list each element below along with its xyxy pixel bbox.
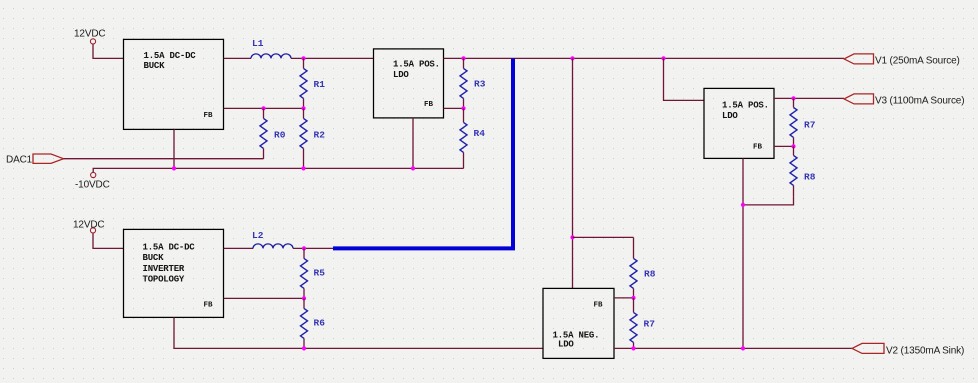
node U1 bottom on rail	[172, 166, 176, 170]
svg-text:LDO: LDO	[722, 111, 738, 121]
port DAC1	[33, 154, 64, 163]
op-amp U5 1.5A DC-DC BUCK INVERTER TOPOLOGY	[124, 229, 224, 317]
wire to R8 mid	[573, 236, 634, 238]
wire L1 to U2	[291, 57, 374, 59]
terminal 12VDC (bottom)	[90, 228, 95, 233]
node R8 return junction	[741, 203, 745, 207]
node R5/R6 junction	[302, 296, 306, 300]
node L2 output junction	[302, 246, 306, 250]
resistor R6	[301, 298, 326, 348]
node R7 bottom on rail	[631, 346, 635, 350]
terminal -10VDC	[91, 172, 96, 177]
svg-text:L2: L2	[252, 230, 264, 241]
wire 12VDC to U1	[93, 44, 124, 58]
svg-text:R2: R2	[314, 129, 326, 140]
wire to U3 input	[664, 58, 705, 100]
svg-text:LDO: LDO	[558, 339, 574, 349]
node R7 top junction	[791, 96, 795, 100]
svg-text:1.5A POS.: 1.5A POS.	[393, 59, 440, 69]
svg-text:L1: L1	[252, 38, 264, 49]
wire U2 FB	[444, 107, 464, 109]
svg-text:LDO: LDO	[393, 70, 409, 80]
wire U4 FB	[614, 297, 634, 299]
resistor R7 (right)	[790, 98, 816, 146]
node U2 bottom on rail	[411, 166, 415, 170]
node L1 output junction	[301, 56, 305, 60]
svg-text:1.5A POS.: 1.5A POS.	[722, 100, 769, 110]
op-amp U2 1.5A POS. LDO	[374, 49, 444, 118]
svg-text:FB: FB	[424, 101, 434, 109]
svg-text:R7: R7	[804, 119, 816, 130]
wire U3 out to V3	[774, 97, 844, 99]
svg-text:FB: FB	[204, 112, 214, 120]
resistor R8 (right)	[790, 146, 816, 196]
svg-text:R0: R0	[274, 129, 286, 140]
terminal 12VDC (top)	[90, 39, 95, 44]
wire U2 bottom pin	[412, 118, 414, 168]
resistor R3	[460, 58, 486, 108]
node R8/R7 junction (mid)	[631, 296, 635, 300]
svg-text:R3: R3	[474, 78, 486, 89]
wire U5 FB	[224, 297, 305, 299]
node main rail junction x572	[570, 56, 574, 60]
node R7/R8 junction (right)	[791, 144, 795, 148]
svg-text:DAC1: DAC1	[6, 154, 33, 165]
wire U5 bottom to rail	[174, 317, 543, 348]
svg-text:12VDC: 12VDC	[73, 219, 105, 230]
node R6 bottom on rail	[302, 346, 306, 350]
node mid vertical junction	[570, 235, 574, 239]
wire U5 out to L2	[224, 247, 254, 249]
node R0 top junction	[261, 106, 265, 110]
port V2	[852, 343, 884, 353]
svg-text:R1: R1	[314, 79, 326, 90]
op-amp U4 1.5A NEG. LDO	[543, 288, 614, 358]
node R1/R2 junction	[301, 106, 305, 110]
svg-text:V3 (1100mA Source): V3 (1100mA Source)	[875, 95, 964, 106]
wire bottom rail right	[614, 347, 852, 349]
svg-text:V1 (250mA Source): V1 (250mA Source)	[875, 55, 960, 66]
bus thick blue wire	[333, 58, 513, 248]
svg-text:R4: R4	[474, 128, 486, 139]
resistor R2	[300, 108, 325, 168]
wire DAC1 to R0	[64, 158, 264, 160]
wire FB net of U1	[224, 107, 304, 109]
svg-text:FB: FB	[753, 143, 763, 151]
op-amp U3 1.5A POS. LDO (right)	[704, 88, 774, 158]
resistor R8 (mid)	[630, 237, 656, 298]
resistor R7 (mid)	[630, 298, 655, 349]
svg-text:R8: R8	[804, 171, 816, 182]
resistor R5	[301, 248, 326, 298]
resistor R1	[300, 58, 325, 108]
wire U2 out to V1	[444, 57, 845, 59]
op-amp U1 1.5A DC-DC BUCK	[124, 39, 224, 129]
svg-text:INVERTER: INVERTER	[143, 264, 185, 274]
node U2 output junction	[461, 56, 465, 60]
svg-text:FB: FB	[204, 301, 214, 309]
node R2 bottom on rail	[301, 166, 305, 170]
svg-text:FB: FB	[594, 301, 604, 309]
wire U3 FB	[774, 145, 794, 147]
svg-text:1.5A DC-DC: 1.5A DC-DC	[144, 51, 197, 61]
wire U1 bottom pin	[173, 129, 175, 168]
wire R8 return to U3 bottom	[743, 196, 794, 205]
svg-text:R6: R6	[314, 317, 326, 328]
wire vertical to U4	[572, 58, 574, 288]
svg-text:BUCK: BUCK	[143, 253, 165, 263]
svg-text:TOPOLOGY: TOPOLOGY	[143, 274, 185, 284]
port V3	[844, 94, 874, 104]
wire L2 to bus	[293, 247, 333, 249]
svg-text:R5: R5	[314, 267, 326, 278]
node U3 bottom on rail	[741, 346, 745, 350]
svg-text:R7: R7	[644, 318, 656, 329]
wire 12VDC to U5	[93, 233, 124, 248]
wire U3 bottom pin	[742, 158, 744, 348]
wire U1 out to L1	[224, 57, 252, 59]
svg-text:-10VDC: -10VDC	[75, 179, 110, 190]
svg-text:V2 (1350mA Sink): V2 (1350mA Sink)	[886, 345, 964, 356]
node R3/R4 junction	[461, 106, 465, 110]
port V1	[844, 54, 874, 64]
svg-text:R8: R8	[644, 268, 656, 279]
inductor L2	[252, 230, 293, 249]
resistor R4	[460, 108, 485, 168]
svg-text:1.5A DC-DC: 1.5A DC-DC	[143, 242, 196, 252]
inductor L1	[251, 38, 291, 59]
svg-text:12VDC: 12VDC	[74, 28, 106, 39]
node U3 input junction	[661, 56, 665, 60]
resistor R0	[260, 108, 286, 158]
wire -10VDC rail	[93, 168, 463, 172]
svg-text:BUCK: BUCK	[144, 61, 166, 71]
